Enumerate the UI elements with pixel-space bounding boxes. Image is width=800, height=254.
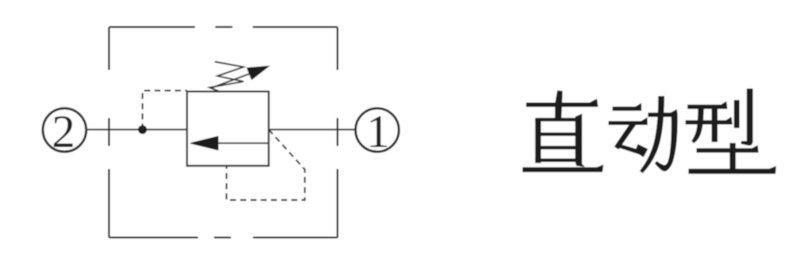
adjustment arrow <box>211 66 269 88</box>
flow arrow (poppet) inside valve <box>191 137 269 150</box>
port 1 circle <box>356 106 399 158</box>
label 直动型 (drawn as vector strokes) <box>523 89 776 173</box>
直 char <box>523 91 603 172</box>
wire: port 2 to valve <box>86 129 187 131</box>
型 char <box>686 89 776 173</box>
port 2 circle <box>43 106 86 158</box>
pilot line (dashed) from junction to valve top-left <box>143 91 188 130</box>
wire: valve to port 1 <box>269 129 356 131</box>
svg-text:2: 2 <box>52 106 76 158</box>
valve body V1 <box>187 92 269 166</box>
pilot line (dashed) right: valve outlet to spring chamber drain <box>227 130 305 200</box>
动 char <box>609 97 677 173</box>
spring <box>210 62 244 92</box>
junction node <box>138 125 147 134</box>
svg-text:1: 1 <box>366 106 390 158</box>
enclosure dashed boundary <box>109 27 338 238</box>
